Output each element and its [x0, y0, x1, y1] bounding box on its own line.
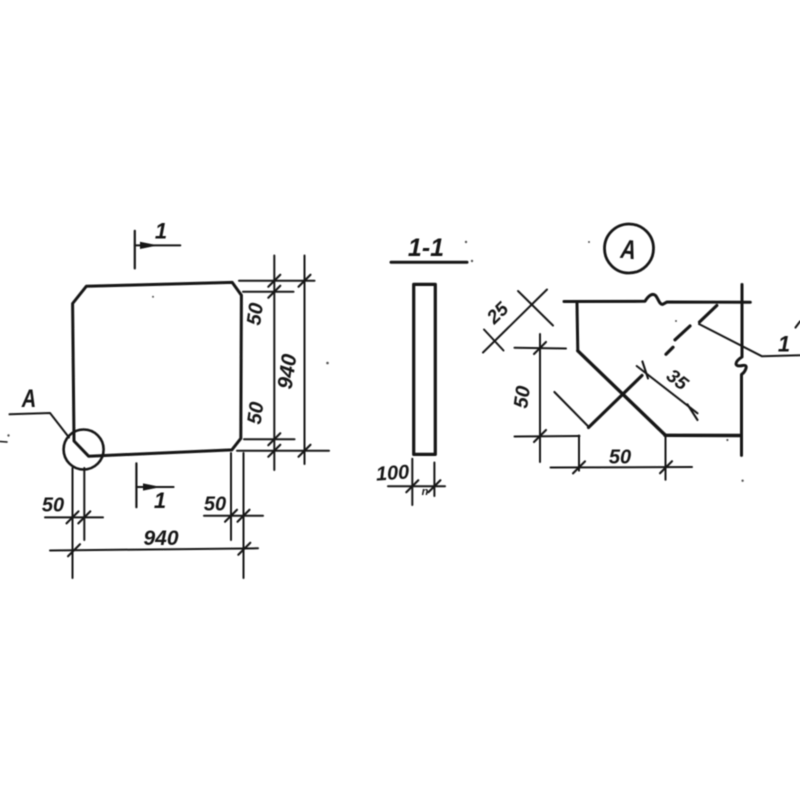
dimension line 50 left vertical (detail) [539, 334, 541, 462]
section mark 1 top: arrowhead [140, 242, 158, 249]
svg-text:1: 1 [154, 488, 166, 513]
svg-text:35: 35 [662, 365, 692, 395]
section mark 1 bottom: arrowhead [143, 483, 161, 490]
dimension line 25 (diagonal) [483, 290, 547, 353]
detail circle A title [605, 224, 654, 273]
section mark 1 top: arrow line [135, 244, 181, 246]
leader line to bar 1 [699, 324, 800, 356]
svg-text:25: 25 [483, 298, 514, 329]
tick marks bottom dimension group [67, 510, 251, 557]
detail left edge [576, 303, 580, 350]
extension slash 1 for 25 [484, 330, 504, 351]
tick marks detail 50 bottom [573, 461, 672, 473]
dimension line 35 (diagonal) [637, 366, 698, 413]
detail bottom edge [665, 434, 740, 438]
svg-text:1-1: 1-1 [408, 234, 444, 262]
dimension line vertical outer (940) [304, 256, 306, 465]
dimension line 50 bottom-left [45, 516, 103, 518]
section mark 1 top: vertical stroke [134, 231, 136, 269]
extension line detail 50 left lower [515, 435, 580, 438]
speck near label A [7, 434, 9, 436]
extension line from plate bottom edge [237, 450, 329, 452]
svg-text:50: 50 [204, 494, 226, 516]
dimension line 940 bottom [50, 548, 258, 550]
svg-text:1: 1 [155, 219, 167, 244]
bent bar leg thick [589, 376, 643, 428]
svg-text:n: n [422, 486, 429, 498]
extension line detail 50 bottom right [665, 436, 667, 480]
extension line detail 50 bottom left [578, 436, 580, 471]
detail chamfer edge [578, 351, 665, 435]
section mark 1 bottom: arrow line [136, 486, 173, 488]
extension line below bottom-right chamfer start [230, 453, 232, 540]
leader line to detail A [10, 413, 70, 438]
extension line from top-right chamfer end [243, 291, 294, 293]
svg-text:100: 100 [375, 461, 410, 485]
svg-text:50: 50 [510, 385, 535, 410]
dimension line 50 bottom (detail) [551, 466, 693, 469]
svg-text:50: 50 [42, 495, 64, 517]
tick marks detail 50 left [534, 342, 546, 442]
small mark at left border [0, 441, 7, 444]
bent bar leg thin [554, 392, 588, 427]
extension slash 2 for 25 [518, 291, 553, 326]
dimension line 50 bottom-right [204, 515, 263, 517]
extension line section right [433, 463, 435, 497]
svg-text:50: 50 [244, 401, 269, 426]
extension line section left [411, 459, 413, 505]
svg-text:A: A [618, 234, 637, 266]
extension line below bottom-left chamfer end [83, 468, 85, 540]
extension line from plate top edge [239, 280, 315, 282]
extension line detail 50 left upper [515, 347, 567, 350]
tick slash 2 for 35 [687, 404, 697, 420]
svg-text:940: 940 [274, 352, 302, 390]
tick slash 1 for 35 [642, 362, 648, 379]
svg-text:50: 50 [609, 447, 631, 469]
extension line below plate left edge [72, 468, 74, 578]
hidden bar 1 dashed [666, 306, 717, 355]
svg-text:A: A [21, 385, 36, 413]
svg-text:50: 50 [243, 302, 268, 327]
detail top edge with break squiggle [564, 294, 750, 304]
svg-text:940: 940 [143, 527, 178, 550]
section mark 1 bottom: vertical stroke [135, 463, 137, 507]
section title underline [391, 261, 467, 264]
detail callout circle A [64, 430, 104, 470]
extension line below plate right edge [243, 453, 245, 578]
tick marks 100 dimension [406, 480, 440, 492]
scan specks [152, 241, 744, 482]
section 1-1 slab rectangle [414, 284, 436, 454]
clipped mark at right edge [796, 322, 800, 328]
svg-text:1: 1 [778, 332, 790, 357]
dimension line 100 [388, 485, 445, 487]
detail right break line with squiggle [736, 285, 746, 456]
plate outline (plan view, chamfered square) [73, 282, 242, 456]
tick marks right dimension group [268, 275, 310, 457]
extension line from bottom-right chamfer start [244, 438, 295, 440]
dimension line vertical inner (chamfer 50s) [273, 256, 275, 471]
